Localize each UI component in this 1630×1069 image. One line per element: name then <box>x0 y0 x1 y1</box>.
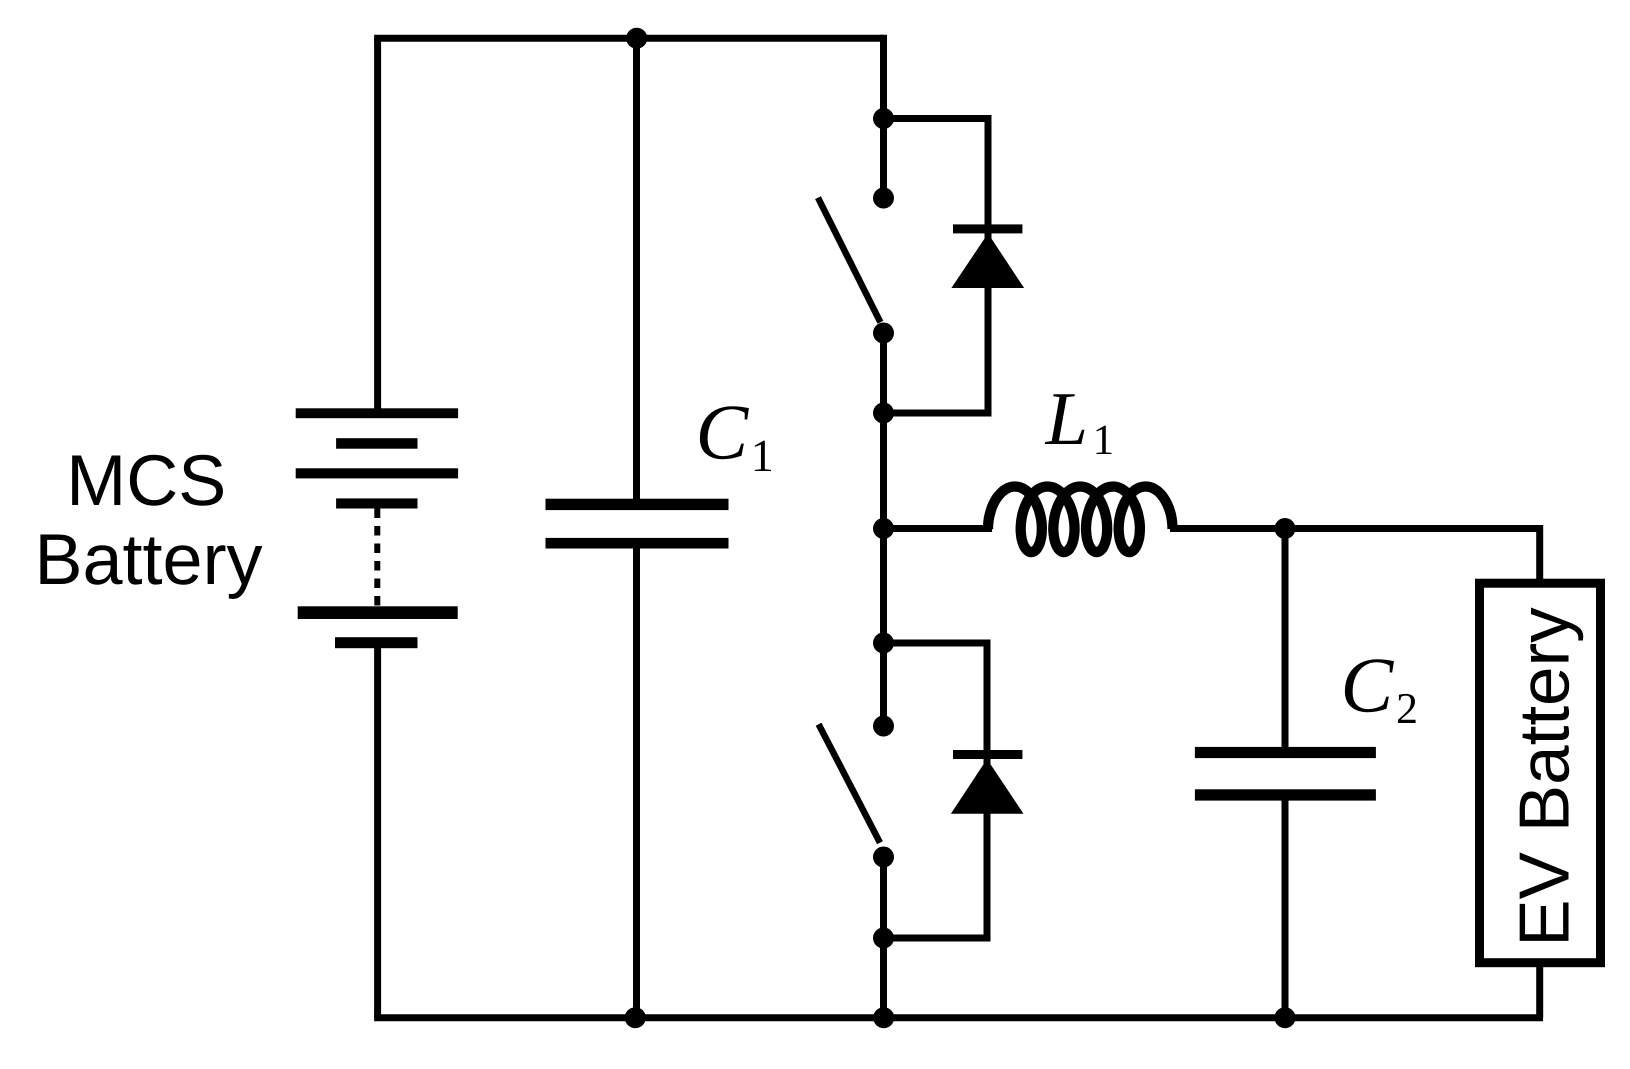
svg-text:2: 2 <box>1396 684 1418 733</box>
node midpoint <box>873 518 894 539</box>
battery dotted cell line <box>374 509 380 608</box>
EV battery box <box>1480 583 1601 963</box>
svg-text:1: 1 <box>1093 417 1115 464</box>
node S2 top terminal <box>873 716 894 737</box>
diode D1 <box>951 224 1024 288</box>
svg-text:C: C <box>1341 643 1395 730</box>
svg-text:C: C <box>696 389 750 476</box>
node mid leg bottom <box>873 1007 894 1028</box>
node D2 bottom junction <box>873 928 894 949</box>
wire midpoint node to inductor <box>884 525 993 532</box>
node D2 top junction <box>873 633 894 654</box>
wire switch S2 bottom to bottom rail <box>880 854 887 1018</box>
svg-text:EV Battery: EV Battery <box>1506 607 1585 947</box>
wire top of phase leg <box>880 35 887 201</box>
wire switch S1 bottom to midpoint node <box>880 330 887 729</box>
node D1 bottom junction <box>873 403 894 424</box>
battery MCS plates <box>296 408 458 648</box>
svg-text:MCS: MCS <box>66 441 226 521</box>
switch S1 blade <box>818 198 880 323</box>
svg-text:Battery: Battery <box>34 520 262 600</box>
wire diode D1 branch <box>884 119 989 414</box>
wire C2 bottom lead <box>1282 798 1289 1018</box>
node C2 bottom <box>1275 1007 1296 1028</box>
node top C1 junction <box>626 28 647 49</box>
svg-text:1: 1 <box>751 430 774 481</box>
wire bottom rail <box>374 1014 1543 1021</box>
node C1 bottom <box>625 1007 646 1028</box>
node D1 top junction <box>873 108 894 129</box>
wire inductor to EV battery top <box>1170 529 1540 581</box>
svg-text:L: L <box>1045 377 1088 461</box>
wire top rail <box>374 35 883 42</box>
node S1 top terminal <box>873 188 894 209</box>
wire battery negative lead <box>374 645 381 1018</box>
wire C1 bottom lead <box>633 546 640 1018</box>
node S1 bottom terminal <box>873 323 894 344</box>
switch S2 blade <box>819 724 880 843</box>
capacitor C1 plates <box>546 499 729 549</box>
wire EV battery bottom lead <box>1536 964 1543 1018</box>
diode D2 <box>951 750 1024 814</box>
node C2 top <box>1275 518 1296 539</box>
wire diode D2 branch <box>884 643 988 938</box>
node S2 bottom terminal <box>873 847 894 868</box>
wire left rail (battery positive to top rail) <box>374 38 381 412</box>
wire C2 top lead <box>1282 529 1289 751</box>
inductor L1 <box>988 487 1173 553</box>
wire C1 top lead <box>633 38 640 502</box>
capacitor C2 plates <box>1195 747 1376 801</box>
